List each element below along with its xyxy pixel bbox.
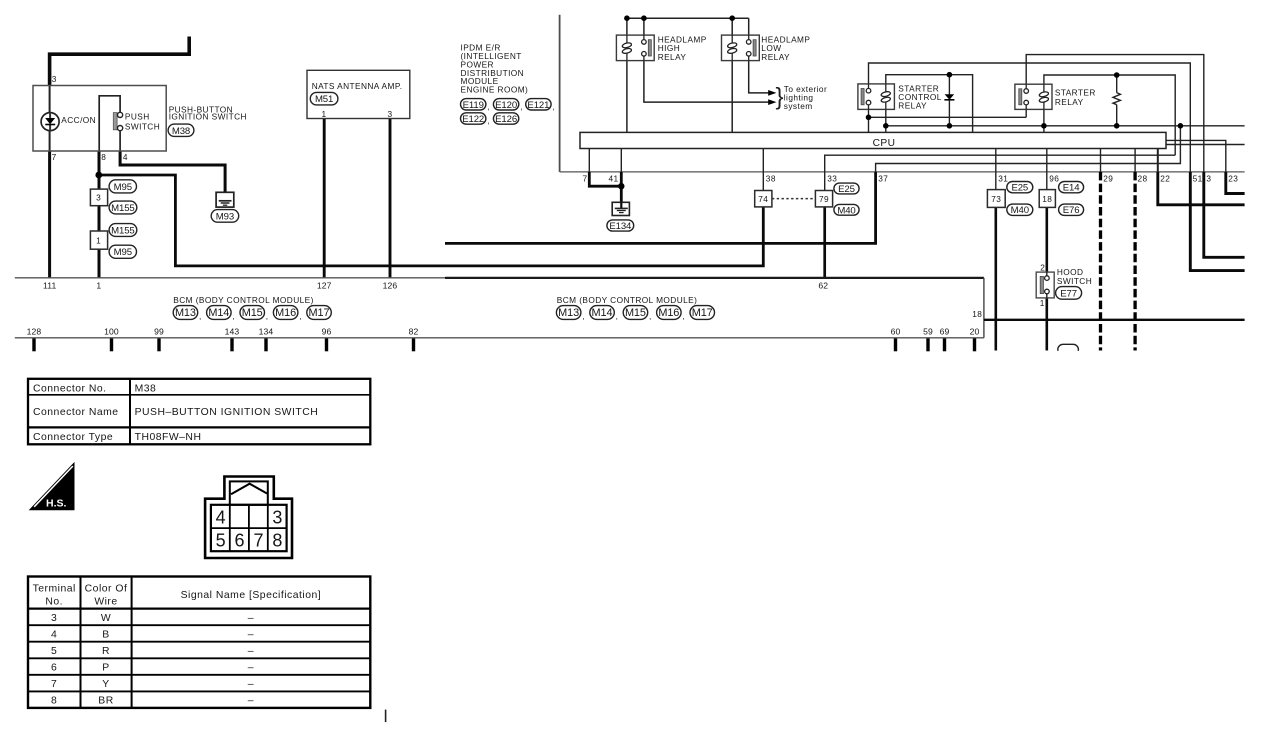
svg-text:RELAY: RELAY bbox=[1055, 97, 1084, 107]
connector M155 bbox=[109, 201, 137, 214]
svg-text:E121: E121 bbox=[527, 100, 549, 111]
wire pin 37 output bbox=[445, 172, 876, 244]
svg-text:37: 37 bbox=[878, 173, 888, 183]
svg-text:M40: M40 bbox=[1011, 205, 1029, 216]
svg-text:M17: M17 bbox=[309, 307, 330, 319]
connector E120 bbox=[493, 99, 518, 110]
wire CPU pin 22 bbox=[1157, 149, 1159, 172]
node dot bbox=[866, 115, 872, 121]
terminal box 74 bbox=[755, 191, 772, 207]
svg-text:,: , bbox=[582, 311, 585, 321]
svg-text:96: 96 bbox=[1049, 173, 1059, 183]
svg-text:1: 1 bbox=[96, 280, 101, 290]
wire CPU right to pin 23 bbox=[1166, 140, 1226, 172]
svg-text:96: 96 bbox=[322, 327, 332, 337]
svg-text:Color Of: Color Of bbox=[85, 583, 128, 594]
svg-text:CPU: CPU bbox=[873, 138, 896, 149]
CPU box bbox=[580, 132, 1166, 148]
svg-text:,: , bbox=[520, 101, 523, 111]
svg-text:P: P bbox=[102, 663, 109, 674]
BCM bus bottom edge bbox=[15, 337, 984, 339]
connector E121 bbox=[526, 99, 551, 110]
terminal box 79 bbox=[815, 191, 832, 207]
svg-text:M14: M14 bbox=[592, 307, 613, 319]
svg-text:M155: M155 bbox=[111, 226, 135, 237]
svg-text:M15: M15 bbox=[625, 307, 646, 319]
svg-text:E126: E126 bbox=[495, 114, 517, 125]
svg-text:M40: M40 bbox=[837, 205, 855, 216]
svg-text:1: 1 bbox=[321, 109, 326, 119]
wire starter control relay contact top to pin 51 bbox=[869, 63, 1191, 172]
svg-text:M51: M51 bbox=[315, 94, 333, 105]
text cursor artifact bbox=[385, 710, 387, 723]
wire NATS pin 3 to BCM 126 bbox=[389, 119, 392, 278]
wire coil-bottom common rail bbox=[885, 109, 887, 132]
svg-text:3: 3 bbox=[96, 193, 101, 203]
svg-text:,: , bbox=[299, 311, 302, 321]
svg-text:134: 134 bbox=[259, 327, 274, 337]
svg-text:ENGINE ROOM): ENGINE ROOM) bbox=[461, 85, 529, 95]
svg-text:Connector No.: Connector No. bbox=[33, 384, 107, 395]
wire NATS pin 1 to BCM 127 bbox=[323, 119, 326, 278]
svg-text:126: 126 bbox=[383, 280, 398, 290]
wire CPU pin 7 bbox=[588, 149, 590, 172]
diode across starter control relay coil bbox=[948, 75, 950, 126]
svg-text:79: 79 bbox=[819, 194, 829, 204]
svg-text:1: 1 bbox=[1040, 298, 1045, 308]
svg-text:–: – bbox=[248, 696, 254, 707]
svg-text:RELAY: RELAY bbox=[658, 52, 687, 62]
wire relay1 contact to exterior lighting bbox=[644, 57, 769, 102]
node dot bbox=[1114, 72, 1120, 78]
svg-text:W: W bbox=[101, 613, 111, 624]
svg-text:E119: E119 bbox=[463, 100, 484, 111]
svg-text:100: 100 bbox=[104, 327, 119, 337]
svg-text:,: , bbox=[487, 101, 490, 111]
NATS ANTENNA AMP box bbox=[307, 70, 410, 118]
connector M40 bbox=[834, 204, 859, 215]
svg-text:E76: E76 bbox=[1063, 205, 1080, 216]
svg-text:No.: No. bbox=[45, 596, 63, 607]
node dot bbox=[729, 15, 735, 21]
svg-text:41: 41 bbox=[609, 173, 619, 183]
svg-text:8: 8 bbox=[101, 152, 106, 162]
IPDM bottom border bbox=[560, 171, 1245, 173]
BCM bus top edge bbox=[15, 277, 445, 279]
wire CPU pin 31 bbox=[995, 149, 997, 190]
svg-text:2: 2 bbox=[1040, 262, 1045, 272]
svg-text:BCM (BODY CONTROL MODULE): BCM (BODY CONTROL MODULE) bbox=[557, 295, 698, 305]
connector E14 bbox=[1059, 182, 1084, 193]
connector box 1 bbox=[90, 231, 107, 249]
wire shielded pin 29 down bbox=[1099, 172, 1102, 351]
svg-text:7: 7 bbox=[51, 679, 57, 690]
wire rail branch to pin 37 bbox=[876, 126, 1181, 172]
svg-text:BR: BR bbox=[98, 696, 113, 707]
wire pin 3 output bbox=[1204, 172, 1245, 257]
terminal box 18 bbox=[1039, 190, 1055, 208]
svg-text:18: 18 bbox=[972, 309, 982, 319]
table connector info M38 bbox=[28, 379, 370, 445]
IPDM left border bbox=[559, 15, 561, 172]
svg-text:NATS ANTENNA AMP.: NATS ANTENNA AMP. bbox=[312, 81, 403, 91]
svg-text:,: , bbox=[649, 311, 652, 321]
svg-text:3: 3 bbox=[1206, 173, 1211, 183]
hood switch box E77 bbox=[1036, 272, 1054, 298]
connector E126 bbox=[493, 113, 518, 124]
connector E76 bbox=[1059, 204, 1084, 215]
table terminal assignments bbox=[28, 577, 370, 708]
svg-text:127: 127 bbox=[317, 280, 332, 290]
wire CPU pin 38 bbox=[762, 149, 764, 191]
wire pin 4 to ground M93 bbox=[120, 151, 225, 201]
svg-text:}: } bbox=[776, 83, 784, 110]
svg-text:Connector Name: Connector Name bbox=[33, 407, 119, 418]
wire pin 51 output bbox=[1190, 172, 1244, 271]
svg-text:4: 4 bbox=[123, 152, 128, 162]
svg-text:M17: M17 bbox=[692, 307, 713, 319]
wire CPU pin 41 to ground E134 bbox=[620, 149, 622, 172]
svg-text:,: , bbox=[553, 101, 556, 111]
wire ACC/ON branch inside switch box bbox=[49, 86, 51, 113]
svg-text:1: 1 bbox=[96, 236, 101, 246]
node dot bbox=[641, 15, 647, 21]
svg-text:7: 7 bbox=[583, 173, 588, 183]
connector M17 bbox=[307, 306, 332, 320]
svg-text:M16: M16 bbox=[658, 307, 679, 319]
relay HEADLAMP HIGH bbox=[616, 35, 654, 61]
svg-text:111: 111 bbox=[43, 280, 56, 290]
svg-text:6: 6 bbox=[51, 663, 57, 674]
svg-text:–: – bbox=[248, 629, 254, 640]
connector M16 bbox=[657, 306, 682, 320]
node dot bbox=[883, 123, 889, 129]
svg-text:–: – bbox=[248, 613, 254, 624]
svg-text:Signal Name [Specification]: Signal Name [Specification] bbox=[181, 590, 322, 601]
wire CPU right stub bbox=[1166, 144, 1245, 146]
svg-text:–: – bbox=[248, 679, 254, 690]
wire starter relay contact top to pin 3 bbox=[1026, 55, 1204, 172]
svg-text:3: 3 bbox=[52, 74, 57, 84]
connector M38 bbox=[168, 124, 194, 136]
svg-text:E77: E77 bbox=[1060, 288, 1077, 299]
svg-text:M14: M14 bbox=[208, 307, 229, 319]
wire dashed link 74-79 bbox=[772, 198, 816, 200]
wire starter relay coil top to resistor line bbox=[1044, 75, 1175, 155]
svg-text:28: 28 bbox=[1138, 173, 1148, 183]
wire push switch internal branch pin 8 bbox=[99, 96, 120, 151]
svg-text:system: system bbox=[784, 101, 813, 111]
connector E122 bbox=[461, 113, 486, 124]
svg-text:RELAY: RELAY bbox=[761, 52, 790, 62]
svg-text:4: 4 bbox=[216, 507, 226, 527]
svg-text:4: 4 bbox=[51, 629, 57, 640]
svg-text:62: 62 bbox=[818, 280, 828, 290]
svg-text:SWITCH: SWITCH bbox=[125, 122, 160, 132]
svg-text:,: , bbox=[487, 116, 490, 126]
svg-text:22: 22 bbox=[1160, 173, 1170, 183]
svg-text:,: , bbox=[682, 311, 685, 321]
wire relay2 contact to exterior lighting bbox=[749, 57, 769, 93]
svg-text:R: R bbox=[102, 646, 110, 657]
relay HEADLAMP LOW bbox=[722, 35, 760, 61]
wire internal to pin 33 bbox=[825, 155, 1175, 190]
wire headlamp relay supply bus bbox=[627, 17, 749, 19]
wire starter control relay coil top bbox=[886, 75, 973, 133]
connector M14 bbox=[590, 306, 615, 320]
svg-text:,: , bbox=[232, 311, 235, 321]
node dot bbox=[1178, 123, 1184, 129]
svg-text:Y: Y bbox=[102, 679, 109, 690]
connector M17 bbox=[690, 306, 715, 320]
svg-text:M155: M155 bbox=[111, 203, 135, 214]
svg-text:H.S.: H.S. bbox=[46, 498, 67, 510]
node dot bbox=[624, 15, 630, 21]
svg-text:E122: E122 bbox=[462, 114, 484, 125]
svg-text:51: 51 bbox=[1193, 173, 1203, 183]
svg-text:,: , bbox=[616, 311, 619, 321]
svg-text:M95: M95 bbox=[114, 247, 132, 258]
svg-text:PUSH–BUTTON IGNITION SWITCH: PUSH–BUTTON IGNITION SWITCH bbox=[135, 407, 319, 418]
wire shielded pin 28 down bbox=[1133, 172, 1136, 351]
svg-text:E25: E25 bbox=[1011, 183, 1028, 194]
svg-text:M95: M95 bbox=[114, 182, 132, 193]
connector E25 bbox=[834, 183, 859, 194]
connector M13 bbox=[556, 306, 581, 320]
svg-text:7: 7 bbox=[52, 152, 57, 162]
svg-text:B: B bbox=[102, 629, 109, 640]
svg-text:8: 8 bbox=[51, 696, 57, 707]
relay STARTER bbox=[1015, 84, 1052, 109]
H.S. view mark bbox=[29, 462, 75, 510]
connector M15 bbox=[240, 306, 265, 320]
node dot bbox=[947, 72, 953, 78]
node dot bbox=[947, 123, 953, 129]
svg-text:29: 29 bbox=[1103, 173, 1113, 183]
svg-text:IGNITION SWITCH: IGNITION SWITCH bbox=[169, 112, 247, 122]
wire junction branch to IPDM pin 38 bbox=[99, 175, 764, 266]
connector M155 bbox=[109, 224, 137, 237]
svg-text:M38: M38 bbox=[172, 126, 190, 137]
connector M16 bbox=[273, 306, 298, 320]
svg-text:M16: M16 bbox=[275, 307, 296, 319]
connector E119 bbox=[461, 99, 486, 110]
wire CPU pin 29 bbox=[1100, 149, 1102, 172]
connector M13 bbox=[173, 306, 198, 320]
svg-text:–: – bbox=[248, 646, 254, 657]
connector E25 bbox=[1007, 182, 1033, 193]
svg-text:18: 18 bbox=[1042, 194, 1052, 204]
ground M93 bbox=[216, 192, 234, 207]
wire relay1 coil to CPU bbox=[626, 61, 628, 133]
svg-text:128: 128 bbox=[27, 327, 42, 337]
svg-text:60: 60 bbox=[891, 327, 901, 337]
svg-text:ACC/ON: ACC/ON bbox=[61, 115, 96, 125]
resistor bbox=[1116, 75, 1118, 93]
svg-text:PUSH: PUSH bbox=[125, 111, 150, 121]
indicator ACC/ON (LED) bbox=[41, 113, 59, 131]
svg-text:,: , bbox=[266, 311, 269, 321]
BCM right edge bbox=[983, 278, 985, 338]
svg-text:M38: M38 bbox=[135, 384, 157, 395]
svg-text:69: 69 bbox=[940, 327, 950, 337]
wire BCM pin 18 output bbox=[984, 319, 1245, 321]
svg-text:7: 7 bbox=[253, 531, 263, 551]
wire CPU pin 28 bbox=[1134, 149, 1136, 172]
svg-text:TH08FW–NH: TH08FW–NH bbox=[135, 432, 202, 443]
connector M40 bbox=[1007, 204, 1033, 215]
svg-text:RELAY: RELAY bbox=[898, 101, 927, 111]
svg-text:73: 73 bbox=[991, 194, 1001, 204]
ground E134 bbox=[612, 202, 629, 215]
connector M14 bbox=[207, 306, 232, 320]
connector M15 bbox=[623, 306, 648, 320]
svg-text:3: 3 bbox=[272, 507, 282, 527]
svg-text:M13: M13 bbox=[558, 307, 579, 319]
svg-text:8: 8 bbox=[272, 531, 282, 551]
node dot bbox=[618, 183, 624, 189]
terminal box 73 bbox=[987, 190, 1005, 208]
wire pin 7 to BCM pin 111 bbox=[48, 151, 51, 278]
connector E77 bbox=[1056, 287, 1082, 300]
svg-text:M15: M15 bbox=[242, 307, 263, 319]
svg-text:M93: M93 bbox=[216, 211, 234, 222]
svg-text:33: 33 bbox=[827, 173, 837, 183]
svg-text:23: 23 bbox=[1228, 173, 1238, 183]
svg-text:3: 3 bbox=[51, 613, 57, 624]
svg-text:74: 74 bbox=[758, 194, 768, 204]
svg-text:6: 6 bbox=[234, 531, 244, 551]
svg-text:Terminal: Terminal bbox=[33, 583, 76, 594]
svg-text:Wire: Wire bbox=[94, 596, 117, 607]
wire CPU pin 96 bbox=[1046, 149, 1048, 190]
svg-text:,: , bbox=[199, 311, 202, 321]
svg-text:20: 20 bbox=[970, 327, 980, 337]
connector M95 bbox=[109, 245, 136, 258]
connector M95 bbox=[109, 180, 136, 193]
svg-text:99: 99 bbox=[154, 327, 164, 337]
partial connector oval at page cut bbox=[1050, 344, 1086, 359]
wire relay contact bottoms tie bbox=[868, 109, 870, 132]
wire pin 33 to BCM 62 bbox=[823, 207, 826, 278]
wire relay2 coil to CPU bbox=[731, 61, 733, 133]
wire pin 8 to BCM pin 1 bbox=[98, 151, 101, 278]
wire pin 31 down bbox=[994, 207, 997, 350]
node dot bbox=[1114, 123, 1120, 129]
svg-text:M13: M13 bbox=[175, 307, 196, 319]
connector box 3 bbox=[90, 189, 107, 206]
svg-text:E120: E120 bbox=[495, 100, 517, 111]
push-button ignition switch box M38 bbox=[33, 86, 166, 152]
svg-text:82: 82 bbox=[409, 327, 419, 337]
svg-text:31: 31 bbox=[998, 173, 1008, 183]
svg-text:Connector Type: Connector Type bbox=[33, 432, 113, 443]
svg-text:143: 143 bbox=[225, 327, 240, 337]
wire battery feed top-left bbox=[50, 37, 190, 87]
svg-text:E134: E134 bbox=[609, 221, 632, 232]
svg-text:5: 5 bbox=[216, 531, 226, 551]
connector M51 bbox=[310, 92, 338, 105]
node junction pin8/38 bbox=[95, 172, 102, 179]
svg-text:5: 5 bbox=[51, 646, 57, 657]
node dot bbox=[1041, 123, 1047, 129]
connector face M38 pin layout bbox=[205, 477, 292, 559]
svg-text:E14: E14 bbox=[1063, 183, 1080, 194]
relay STARTER CONTROL bbox=[858, 84, 895, 110]
push switch contact symbol bbox=[113, 113, 117, 130]
svg-text:–: – bbox=[248, 663, 254, 674]
svg-text:3: 3 bbox=[387, 109, 392, 119]
svg-text:59: 59 bbox=[923, 327, 933, 337]
wire hood switch down bbox=[1046, 294, 1049, 351]
svg-text:SWITCH: SWITCH bbox=[1057, 276, 1092, 286]
svg-text:E25: E25 bbox=[838, 184, 855, 195]
wire pin 96 to hood switch bbox=[1046, 207, 1049, 276]
svg-text:BCM (BODY CONTROL MODULE): BCM (BODY CONTROL MODULE) bbox=[173, 295, 313, 305]
svg-text:38: 38 bbox=[766, 173, 776, 183]
